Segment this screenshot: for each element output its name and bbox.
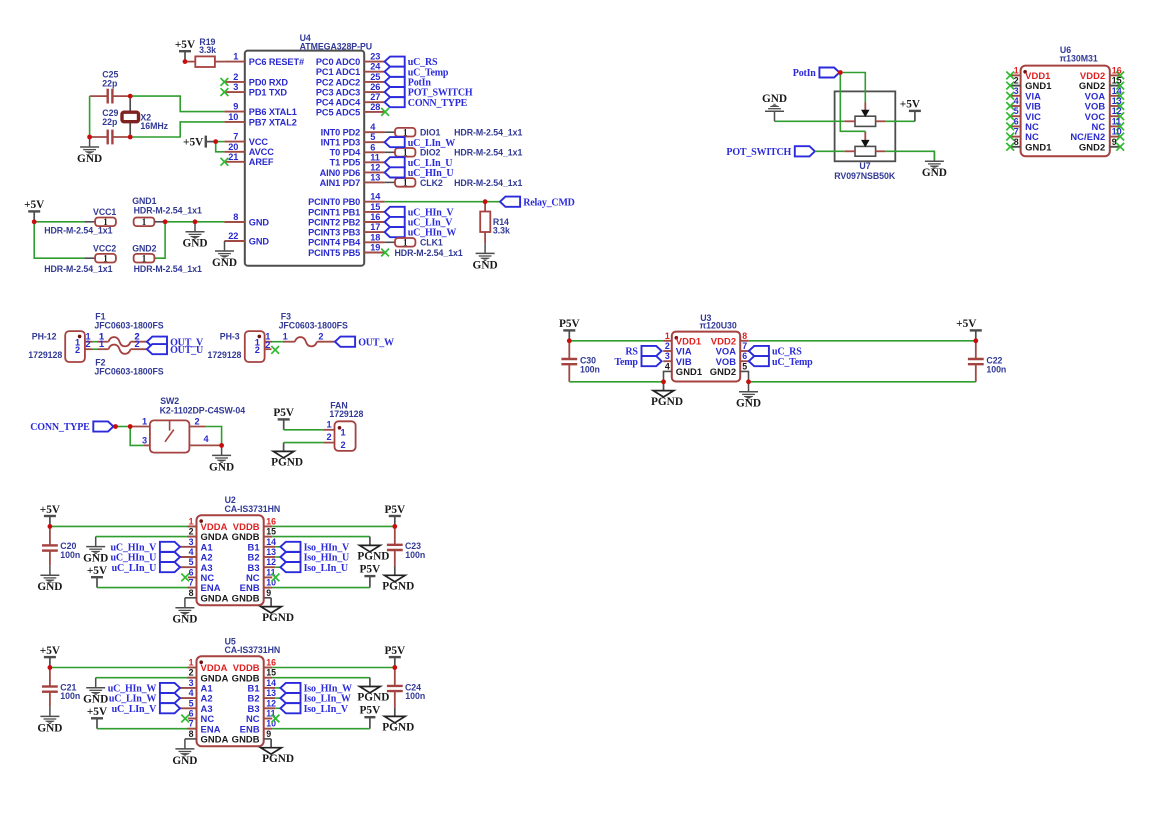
svg-text:PCINT3 PB3: PCINT3 PB3 [308, 228, 360, 238]
svg-text:1729128: 1729128 [28, 350, 62, 360]
svg-text:+5V: +5V [900, 99, 921, 111]
svg-text:CA-IS3731HN: CA-IS3731HN [225, 504, 281, 514]
svg-text:9: 9 [266, 729, 271, 739]
svg-text:GNDB: GNDB [232, 734, 260, 745]
svg-text:10: 10 [1112, 127, 1122, 137]
svg-text:100n: 100n [60, 691, 80, 701]
svg-text:+5V: +5V [24, 199, 45, 211]
svg-text:HDR-M-2.54_1x1: HDR-M-2.54_1x1 [134, 206, 202, 216]
svg-text:8: 8 [233, 212, 238, 222]
svg-text:3: 3 [665, 351, 670, 361]
svg-text:Iso_LIn_V: Iso_LIn_V [304, 704, 349, 715]
svg-text:HDR-M-2.54_1x1: HDR-M-2.54_1x1 [395, 248, 463, 258]
svg-text:PotIn: PotIn [793, 68, 817, 79]
svg-text:GND1: GND1 [132, 196, 156, 206]
svg-text:PB7 XTAL2: PB7 XTAL2 [249, 117, 297, 127]
svg-text:GND2: GND2 [1079, 141, 1105, 152]
svg-text:PC0 ADC0: PC0 ADC0 [316, 57, 360, 67]
svg-text:1: 1 [103, 253, 108, 263]
svg-text:4: 4 [189, 547, 194, 557]
svg-text:1: 1 [665, 331, 670, 341]
svg-text:GND: GND [736, 398, 761, 410]
svg-text:GND: GND [77, 153, 102, 165]
svg-text:PGND: PGND [262, 753, 294, 765]
svg-text:6: 6 [370, 142, 375, 152]
svg-text:Relay_CMD: Relay_CMD [523, 197, 575, 208]
svg-text:VCC2: VCC2 [93, 244, 116, 254]
svg-text:HDR-M-2.54_1x1: HDR-M-2.54_1x1 [454, 128, 522, 138]
svg-text:1: 1 [233, 52, 238, 62]
svg-text:GND: GND [83, 694, 108, 706]
svg-text:PH-3: PH-3 [220, 332, 240, 342]
svg-text:PCINT5 PB5: PCINT5 PB5 [308, 248, 360, 258]
svg-text:+5V: +5V [183, 137, 204, 149]
svg-text:1: 1 [189, 658, 194, 668]
svg-text:16: 16 [266, 658, 276, 668]
svg-text:28: 28 [370, 102, 380, 112]
svg-text:GND: GND [83, 553, 108, 565]
svg-text:uC_LIn_U: uC_LIn_U [112, 563, 157, 574]
svg-text:AREF: AREF [249, 157, 274, 167]
svg-text:24: 24 [370, 62, 381, 72]
svg-text:PC4 ADC4: PC4 ADC4 [316, 98, 361, 108]
svg-text:15: 15 [266, 527, 276, 537]
svg-text:1: 1 [403, 147, 408, 157]
svg-text:1729128: 1729128 [208, 350, 242, 360]
svg-text:JFC0603-1800FS: JFC0603-1800FS [94, 367, 163, 377]
svg-text:7: 7 [742, 341, 747, 351]
svg-text:CA-IS3731HN: CA-IS3731HN [225, 645, 281, 655]
svg-text:P5V: P5V [273, 407, 295, 419]
svg-text:16: 16 [1112, 65, 1122, 75]
svg-text:GND2: GND2 [710, 366, 736, 377]
svg-text:JFC0603-1800FS: JFC0603-1800FS [94, 321, 163, 331]
svg-text:8: 8 [1014, 137, 1019, 147]
svg-text:PC6 RESET#: PC6 RESET# [249, 57, 304, 67]
svg-text:15: 15 [370, 202, 380, 212]
svg-text:2: 2 [189, 527, 194, 537]
svg-text:2: 2 [340, 440, 345, 450]
svg-text:π130M31: π130M31 [1060, 53, 1098, 63]
svg-text:+5V: +5V [956, 318, 977, 330]
svg-text:P5V: P5V [360, 564, 382, 576]
svg-text:PGND: PGND [271, 457, 303, 469]
svg-text:GNDA: GNDA [201, 592, 229, 603]
svg-text:100n: 100n [60, 550, 80, 560]
svg-text:HDR-M-2.54_1x1: HDR-M-2.54_1x1 [134, 264, 202, 274]
svg-text:5: 5 [370, 132, 375, 142]
svg-text:3: 3 [142, 436, 147, 446]
svg-text:22p: 22p [102, 78, 118, 88]
svg-text:DIO1: DIO1 [420, 128, 440, 138]
svg-text:15: 15 [266, 668, 276, 678]
svg-text:GND1: GND1 [1025, 141, 1051, 152]
svg-text:HDR-M-2.54_1x1: HDR-M-2.54_1x1 [44, 264, 112, 274]
svg-text:19: 19 [370, 243, 380, 253]
svg-text:GND: GND [922, 167, 947, 179]
svg-text:PC5 ADC5: PC5 ADC5 [316, 107, 360, 117]
svg-text:AIN1 PD7: AIN1 PD7 [320, 178, 361, 188]
svg-text:2: 2 [1014, 76, 1019, 86]
svg-text:18: 18 [370, 232, 380, 242]
svg-text:16: 16 [370, 212, 380, 222]
svg-text:uC_LIn_W: uC_LIn_W [408, 138, 456, 149]
svg-text:22: 22 [228, 231, 238, 241]
svg-text:4: 4 [189, 688, 194, 698]
svg-text:PD0 RXD: PD0 RXD [249, 77, 289, 87]
svg-text:PCINT1 PB1: PCINT1 PB1 [308, 207, 360, 217]
svg-text:HDR-M-2.54_1x1: HDR-M-2.54_1x1 [454, 148, 522, 158]
svg-text:HDR-M-2.54_1x1: HDR-M-2.54_1x1 [44, 225, 112, 235]
svg-text:PGND: PGND [651, 396, 683, 408]
svg-text:6: 6 [189, 709, 194, 719]
svg-text:6: 6 [189, 567, 194, 577]
svg-text:8: 8 [189, 588, 194, 598]
svg-text:GND: GND [249, 236, 270, 246]
svg-text:Iso_LIn_U: Iso_LIn_U [304, 563, 348, 574]
svg-text:7: 7 [233, 132, 238, 142]
svg-text:uC_LIn_V: uC_LIn_V [112, 704, 158, 715]
svg-text:PCINT4 PB4: PCINT4 PB4 [308, 238, 361, 248]
svg-text:22p: 22p [102, 117, 118, 127]
svg-text:11: 11 [370, 152, 380, 162]
svg-text:5: 5 [189, 557, 194, 567]
svg-text:12: 12 [370, 162, 380, 172]
svg-text:3.3k: 3.3k [199, 45, 216, 55]
svg-text:PCINT2 PB2: PCINT2 PB2 [308, 217, 360, 227]
svg-text:π120U30: π120U30 [700, 321, 737, 331]
svg-text:5: 5 [742, 361, 747, 371]
svg-text:1: 1 [326, 419, 331, 429]
svg-text:GND1: GND1 [676, 366, 702, 377]
svg-text:2: 2 [255, 345, 260, 355]
svg-text:CONN_TYPE: CONN_TYPE [30, 422, 90, 433]
svg-text:16: 16 [266, 516, 276, 526]
svg-text:100n: 100n [405, 691, 425, 701]
svg-text:13: 13 [266, 688, 276, 698]
svg-text:1: 1 [283, 332, 288, 342]
svg-text:P5V: P5V [559, 318, 581, 330]
svg-text:K2-1102DP-C4SW-04: K2-1102DP-C4SW-04 [160, 405, 246, 415]
svg-text:21: 21 [228, 152, 238, 162]
svg-text:GND2: GND2 [132, 244, 156, 254]
svg-text:2: 2 [326, 432, 331, 442]
svg-text:16MHz: 16MHz [140, 121, 168, 131]
svg-text:PGND: PGND [262, 612, 294, 624]
svg-text:U7: U7 [859, 161, 870, 171]
svg-text:2: 2 [189, 668, 194, 678]
svg-text:3: 3 [1014, 86, 1019, 96]
svg-text:AIN0 PD6: AIN0 PD6 [320, 168, 361, 178]
svg-text:14: 14 [266, 537, 276, 547]
svg-text:14: 14 [370, 192, 381, 202]
svg-text:1: 1 [99, 339, 104, 349]
svg-text:PC3 ADC3: PC3 ADC3 [316, 88, 360, 98]
svg-text:12: 12 [1112, 106, 1122, 116]
svg-text:3.3k: 3.3k [493, 226, 510, 236]
svg-text:9: 9 [266, 588, 271, 598]
svg-text:3: 3 [233, 82, 238, 92]
svg-text:100n: 100n [580, 365, 600, 375]
svg-text:3: 3 [189, 537, 194, 547]
svg-text:CLK1: CLK1 [420, 238, 443, 248]
svg-text:9: 9 [233, 102, 238, 112]
svg-text:2: 2 [194, 417, 199, 427]
svg-text:PB6 XTAL1: PB6 XTAL1 [249, 107, 297, 117]
svg-text:Temp: Temp [615, 357, 639, 368]
svg-text:PCINT0 PB0: PCINT0 PB0 [308, 197, 360, 207]
svg-text:12: 12 [266, 698, 276, 708]
svg-text:20: 20 [228, 142, 238, 152]
svg-text:4: 4 [203, 434, 209, 444]
svg-text:12: 12 [266, 557, 276, 567]
svg-text:PGND: PGND [382, 722, 414, 734]
svg-text:PGND: PGND [382, 581, 414, 593]
svg-text:7: 7 [189, 719, 194, 729]
svg-text:6: 6 [742, 351, 747, 361]
svg-text:VCC: VCC [249, 137, 269, 147]
svg-text:P5V: P5V [384, 504, 406, 516]
svg-text:GND: GND [762, 93, 787, 105]
svg-text:VCC1: VCC1 [93, 207, 116, 217]
svg-text:1: 1 [142, 253, 147, 263]
svg-text:INT1 PD3: INT1 PD3 [321, 138, 361, 148]
svg-text:4: 4 [665, 361, 670, 371]
svg-text:+5V: +5V [87, 706, 108, 718]
svg-text:GNDA: GNDA [201, 734, 229, 745]
svg-text:14: 14 [266, 678, 276, 688]
svg-text:OUT_W: OUT_W [358, 337, 394, 348]
svg-text:GND: GND [209, 461, 234, 473]
svg-text:100n: 100n [986, 365, 1006, 375]
svg-text:PH-12: PH-12 [32, 332, 57, 342]
svg-text:GND: GND [172, 755, 197, 767]
svg-text:uC_Temp: uC_Temp [772, 357, 813, 368]
svg-text:+5V: +5V [40, 645, 61, 657]
svg-text:27: 27 [370, 92, 380, 102]
svg-text:1: 1 [340, 428, 345, 438]
svg-text:17: 17 [370, 222, 380, 232]
svg-text:PC2 ADC2: PC2 ADC2 [316, 77, 360, 87]
svg-text:10: 10 [228, 112, 238, 122]
svg-text:2: 2 [265, 340, 270, 350]
svg-text:DIO2: DIO2 [420, 148, 440, 158]
svg-text:6: 6 [1014, 116, 1019, 126]
svg-text:CONN_TYPE: CONN_TYPE [408, 98, 468, 109]
svg-text:T1 PD5: T1 PD5 [330, 158, 361, 168]
svg-text:P5V: P5V [360, 705, 382, 717]
svg-text:23: 23 [370, 52, 380, 62]
svg-text:T0 PD4: T0 PD4 [330, 148, 362, 158]
svg-text:2: 2 [85, 339, 90, 349]
svg-text:15: 15 [1112, 76, 1122, 86]
svg-text:13: 13 [266, 547, 276, 557]
svg-text:8: 8 [742, 331, 747, 341]
svg-text:POT_SWITCH: POT_SWITCH [726, 147, 791, 158]
svg-text:GNDB: GNDB [232, 592, 260, 603]
svg-text:1: 1 [403, 178, 408, 188]
svg-text:26: 26 [370, 82, 380, 92]
svg-text:P5V: P5V [384, 645, 406, 657]
svg-text:+5V: +5V [87, 565, 108, 577]
svg-text:100n: 100n [405, 550, 425, 560]
svg-text:GND: GND [172, 614, 197, 626]
svg-text:1: 1 [142, 217, 147, 227]
svg-text:1: 1 [142, 417, 147, 427]
svg-text:2: 2 [665, 341, 670, 351]
svg-text:4: 4 [370, 122, 376, 132]
svg-text:+5V: +5V [40, 504, 61, 516]
svg-text:1729128: 1729128 [329, 409, 363, 419]
svg-text:+5V: +5V [175, 39, 196, 51]
svg-text:GND: GND [37, 722, 62, 734]
svg-text:13: 13 [370, 172, 380, 182]
svg-text:OUT_U: OUT_U [170, 345, 203, 356]
svg-text:INT0 PD2: INT0 PD2 [321, 128, 361, 138]
svg-text:8: 8 [189, 729, 194, 739]
svg-text:JFC0603-1800FS: JFC0603-1800FS [279, 321, 348, 331]
svg-text:7: 7 [189, 578, 194, 588]
svg-text:9: 9 [1112, 137, 1117, 147]
svg-text:GND: GND [182, 238, 207, 250]
svg-text:25: 25 [370, 72, 380, 82]
svg-text:1: 1 [403, 237, 408, 247]
svg-text:1: 1 [403, 127, 408, 137]
svg-text:RV097NSB50K: RV097NSB50K [834, 171, 896, 181]
svg-text:3: 3 [189, 678, 194, 688]
svg-text:CLK2: CLK2 [420, 178, 443, 188]
svg-text:PC1 ADC1: PC1 ADC1 [316, 67, 360, 77]
svg-text:uC_HIn_U: uC_HIn_U [408, 168, 454, 179]
svg-text:GND: GND [37, 581, 62, 593]
svg-text:AVCC: AVCC [249, 147, 274, 157]
svg-text:GND: GND [212, 257, 237, 269]
svg-text:5: 5 [189, 698, 194, 708]
svg-text:GND: GND [249, 217, 270, 227]
svg-text:5: 5 [1014, 106, 1019, 116]
svg-text:2: 2 [318, 332, 323, 342]
svg-text:7: 7 [1014, 127, 1019, 137]
svg-text:14: 14 [1112, 86, 1122, 96]
svg-text:2: 2 [134, 339, 139, 349]
svg-text:GND: GND [473, 259, 498, 271]
svg-text:PD1 TXD: PD1 TXD [249, 88, 288, 98]
svg-text:PGND: PGND [357, 551, 389, 563]
svg-text:4: 4 [1014, 96, 1019, 106]
svg-text:2: 2 [233, 72, 238, 82]
svg-text:2: 2 [75, 345, 80, 355]
svg-text:11: 11 [1112, 116, 1121, 126]
svg-text:13: 13 [1112, 96, 1122, 106]
svg-text:1: 1 [1014, 65, 1019, 75]
svg-text:PGND: PGND [357, 692, 389, 704]
svg-text:ATMEGA328P-PU: ATMEGA328P-PU [300, 42, 373, 52]
svg-text:1: 1 [189, 516, 194, 526]
svg-text:HDR-M-2.54_1x1: HDR-M-2.54_1x1 [454, 178, 522, 188]
